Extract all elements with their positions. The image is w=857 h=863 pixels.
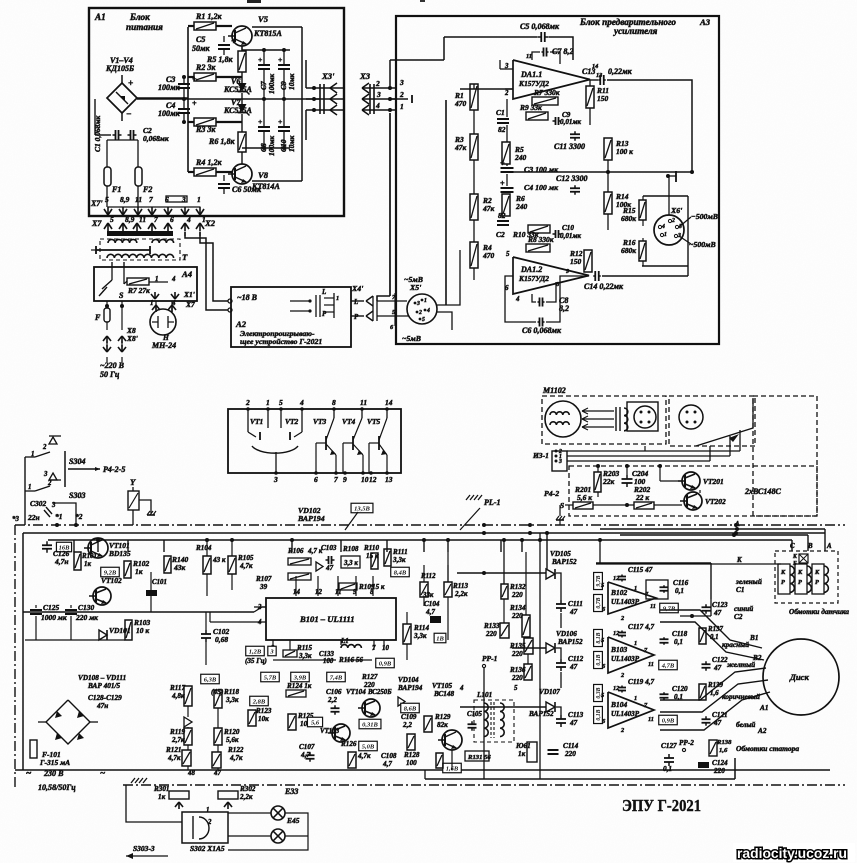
svg-text:R7 27к: R7 27к — [127, 286, 150, 295]
svg-text:22н: 22н — [27, 513, 40, 522]
svg-text:+: + — [258, 55, 262, 64]
svg-text:С122: С122 — [712, 656, 728, 664]
svg-text:R120: R120 — [223, 728, 240, 736]
svg-text:1: 1 — [424, 298, 427, 304]
svg-text:3,3к: 3,3к — [225, 696, 239, 704]
svg-text:С14 0,22мк: С14 0,22мк — [584, 282, 624, 291]
svg-text:S: S — [119, 291, 124, 300]
svg-text:~: ~ — [26, 768, 32, 778]
svg-text:9,7В: 9,7В — [663, 605, 676, 612]
svg-text:0,22мк: 0,22мк — [608, 67, 633, 76]
svg-text:5,6: 5,6 — [311, 719, 320, 726]
svg-text:1: 1 — [634, 695, 637, 702]
svg-text:+: + — [192, 75, 197, 84]
svg-text:А3: А3 — [699, 17, 711, 27]
svg-text:10,58/50Гц: 10,58/50Гц — [38, 783, 76, 792]
svg-text:4,7В: 4,7В — [661, 662, 675, 669]
svg-text:Х4': Х4' — [351, 284, 364, 293]
svg-text:0,1: 0,1 — [675, 587, 684, 595]
svg-text:−500мВ: −500мВ — [691, 212, 718, 221]
svg-text:220: 220 — [511, 650, 523, 658]
svg-text:1к: 1к — [84, 561, 91, 568]
svg-text:VT4: VT4 — [342, 417, 356, 426]
svg-text:47к: 47к — [454, 143, 466, 152]
svg-text:С13: С13 — [582, 67, 595, 76]
svg-text:220: 220 — [564, 750, 576, 758]
svg-text:R107: R107 — [255, 575, 272, 583]
svg-text:47: 47 — [569, 719, 578, 727]
svg-text:9: 9 — [343, 475, 347, 484]
svg-text:14: 14 — [385, 398, 393, 407]
svg-text:UL1403Р: UL1403Р — [611, 655, 640, 663]
svg-text:0,31В: 0,31В — [362, 721, 378, 728]
svg-text:8: 8 — [332, 398, 336, 407]
svg-text:В: В — [807, 543, 813, 550]
svg-text:2: 2 — [245, 398, 250, 407]
svg-text:12: 12 — [369, 475, 377, 484]
svg-text:2,2: 2,2 — [327, 696, 337, 704]
svg-text:R3 3к: R3 3к — [195, 125, 216, 134]
svg-text:Р: Р — [798, 579, 802, 586]
svg-text:1к: 1к — [135, 567, 143, 576]
svg-text:4,7к: 4,7к — [229, 754, 243, 762]
svg-text:10мк: 10мк — [287, 135, 296, 152]
svg-text:10к: 10к — [258, 715, 269, 723]
svg-text:С130: С130 — [78, 603, 94, 612]
svg-text:Х7: Х7 — [91, 219, 102, 228]
svg-text:С120: С120 — [672, 685, 688, 693]
svg-text:R6 1,8к: R6 1,8к — [208, 137, 235, 146]
svg-text:100мк: 100мк — [158, 83, 181, 92]
svg-text:5: 5 — [105, 195, 109, 204]
svg-text:С128-С129: С128-С129 — [88, 694, 122, 702]
svg-text:1: 1 — [150, 300, 153, 307]
svg-text:100 к: 100 к — [616, 147, 633, 156]
svg-text:VТ102: VТ102 — [101, 576, 122, 585]
svg-text:3,3 к: 3,3 к — [343, 560, 358, 567]
svg-text:R135: R135 — [509, 642, 526, 650]
svg-text:щее устройство Г-2021: щее устройство Г-2021 — [240, 337, 322, 346]
svg-text:220 мк: 220 мк — [75, 613, 98, 622]
svg-text:4,7к: 4,7к — [357, 752, 371, 760]
svg-text:5,6 к: 5,6 к — [577, 493, 592, 502]
svg-text:R121: R121 — [165, 746, 181, 754]
svg-text:К: К — [736, 557, 742, 564]
svg-text:А: А — [734, 521, 740, 528]
svg-text:2,2к: 2,2к — [454, 590, 468, 598]
svg-text:VD104: VD104 — [398, 676, 419, 684]
svg-text:4,7к: 4,7к — [167, 754, 181, 762]
svg-text:R127: R127 — [361, 673, 378, 681]
svg-text:4,7: 4,7 — [425, 608, 435, 616]
svg-text:4,7н: 4,7н — [54, 557, 68, 566]
svg-text:2,7к: 2,7к — [171, 736, 185, 744]
svg-text:11: 11 — [650, 603, 656, 610]
svg-text:0,1: 0,1 — [674, 638, 683, 646]
svg-text:R104: R104 — [195, 544, 212, 552]
svg-text:VT1: VT1 — [250, 417, 263, 426]
svg-text:240: 240 — [514, 153, 526, 162]
svg-text:С6 0,068мк: С6 0,068мк — [522, 326, 562, 335]
svg-text:~5мВ: ~5мВ — [402, 334, 421, 343]
svg-text:82к: 82к — [437, 721, 448, 729]
svg-text:8,6В: 8,6В — [404, 705, 417, 712]
svg-text:В1: В1 — [749, 634, 758, 642]
svg-text:5,0В: 5,0В — [362, 743, 375, 750]
svg-text:43 к: 43 к — [212, 556, 226, 564]
svg-text:Р: Р — [815, 579, 819, 586]
svg-text:РР-2: РР-2 — [679, 739, 694, 747]
svg-text:~220 В: ~220 В — [100, 361, 125, 370]
svg-text:R126: R126 — [340, 740, 357, 748]
svg-text:R134: R134 — [509, 604, 526, 612]
svg-text:КС515А: КС515А — [223, 106, 253, 115]
svg-text:С113: С113 — [568, 711, 584, 719]
svg-text:3: 3 — [376, 90, 381, 99]
svg-text:8,9: 8,9 — [120, 195, 130, 204]
svg-text:Х5': Х5' — [409, 283, 422, 292]
svg-text:R119: R119 — [169, 728, 185, 736]
svg-text:R2 3к: R2 3к — [195, 63, 216, 72]
svg-text:С118: С118 — [672, 630, 688, 638]
svg-text:R302: R302 — [239, 785, 256, 793]
svg-text:82: 82 — [498, 211, 506, 220]
svg-text:РР-1: РР-1 — [482, 654, 497, 663]
svg-text:К: К — [814, 569, 820, 576]
svg-text:Х1': Х1' — [183, 290, 195, 299]
svg-text:(45): (45) — [211, 687, 224, 696]
svg-text:R124 1к: R124 1к — [286, 682, 312, 690]
svg-text:С101: С101 — [152, 579, 167, 586]
svg-text:DA1.1: DA1.1 — [520, 70, 542, 79]
svg-text:4: 4 — [459, 685, 464, 692]
svg-text:5,6к: 5,6к — [226, 736, 239, 744]
svg-text:М1102: М1102 — [542, 386, 566, 395]
svg-text:R112: R112 — [420, 573, 436, 580]
svg-text:6,3В: 6,3В — [204, 676, 217, 683]
svg-text:С124: С124 — [712, 759, 728, 767]
svg-text:47н: 47н — [96, 702, 108, 710]
svg-text:7: 7 — [149, 195, 153, 204]
svg-text:3: 3 — [558, 459, 562, 465]
svg-text:С6 50мк: С6 50мк — [232, 185, 262, 194]
svg-text:А: А — [826, 543, 832, 550]
svg-text:А4: А4 — [181, 269, 193, 279]
svg-text:В103: В103 — [610, 645, 627, 654]
svg-text:S304: S304 — [69, 457, 86, 466]
svg-text:R138: R138 — [716, 739, 732, 746]
svg-text:F2: F2 — [142, 185, 152, 194]
svg-text:VТ105: VТ105 — [432, 682, 452, 690]
svg-text:220: 220 — [511, 612, 523, 620]
svg-text:С104: С104 — [424, 600, 440, 608]
svg-text:100: 100 — [323, 658, 334, 665]
svg-text:Р: Р — [781, 579, 785, 586]
svg-text:12: 12 — [315, 589, 322, 596]
svg-text:R129: R129 — [434, 713, 451, 721]
svg-text:Блок: Блок — [129, 12, 150, 22]
svg-text:100мк: 100мк — [158, 109, 181, 118]
svg-text:*3: *3 — [12, 516, 19, 523]
svg-text:1: 1 — [664, 232, 667, 238]
svg-text:PL-1: PL-1 — [484, 498, 501, 507]
svg-text:(35 Гц): (35 Гц) — [245, 657, 267, 665]
svg-text:150: 150 — [597, 94, 608, 103]
svg-text:L: L — [353, 299, 358, 306]
svg-text:V5: V5 — [258, 14, 269, 24]
svg-text:Е33: Е33 — [284, 787, 298, 796]
svg-text:1: 1 — [206, 807, 209, 814]
svg-text:150: 150 — [570, 257, 581, 266]
svg-text:ВАР194: ВАР194 — [397, 684, 423, 692]
svg-text:С108: С108 — [381, 752, 397, 760]
svg-text:Обмотки датчика: Обмотки датчика — [789, 608, 849, 616]
svg-text:47к: 47к — [482, 204, 494, 213]
svg-text:R123: R123 — [255, 707, 272, 715]
svg-text:1,2В: 1,2В — [249, 648, 262, 655]
svg-text:R108: R108 — [342, 545, 359, 553]
svg-text:11: 11 — [360, 398, 367, 407]
svg-text:13: 13 — [596, 72, 602, 79]
svg-text:В101 – UL1111: В101 – UL1111 — [299, 614, 355, 624]
svg-text:К: К — [797, 569, 803, 576]
svg-text:зеленый: зеленый — [735, 577, 762, 586]
svg-text:красный: красный — [722, 640, 749, 649]
svg-text:1к: 1к — [158, 793, 166, 801]
svg-text:22к: 22к — [602, 477, 614, 486]
svg-text:R301: R301 — [153, 785, 169, 793]
svg-text:С11 3300: С11 3300 — [554, 142, 585, 151]
svg-text:2: 2 — [418, 310, 422, 316]
svg-text:39: 39 — [259, 583, 268, 591]
svg-text:1: 1 — [634, 640, 637, 647]
svg-text:+: + — [231, 37, 236, 46]
svg-text:5: 5 — [110, 215, 114, 224]
svg-text:3,9В: 3,9В — [293, 674, 307, 681]
svg-text:10: 10 — [382, 645, 389, 652]
svg-text:5: 5 — [601, 692, 604, 699]
svg-text:240: 240 — [515, 202, 527, 211]
svg-text:С: С — [790, 543, 795, 550]
svg-text:С125: С125 — [43, 603, 59, 612]
svg-text:4: 4 — [375, 101, 380, 110]
svg-text:3,3к: 3,3к — [298, 652, 312, 660]
svg-text:VD108 – VD111: VD108 – VD111 — [78, 674, 126, 682]
svg-text:С111: С111 — [568, 600, 583, 608]
svg-text:47: 47 — [713, 664, 722, 672]
svg-text:11: 11 — [526, 53, 532, 60]
svg-text:0,9В: 0,9В — [662, 717, 675, 724]
svg-text:С2: С2 — [496, 230, 505, 239]
svg-text:К157УД2: К157УД2 — [518, 79, 549, 88]
svg-text:А1: А1 — [759, 704, 768, 712]
svg-text:1к: 1к — [518, 750, 526, 758]
svg-text:4: 4 — [186, 215, 191, 224]
svg-text:С2: С2 — [734, 613, 743, 621]
svg-text:синий: синий — [734, 604, 753, 613]
svg-text:4,8к: 4,8к — [171, 692, 185, 700]
svg-text:11: 11 — [135, 195, 142, 204]
svg-text:Х3': Х3' — [321, 71, 335, 81]
svg-text:+: + — [258, 117, 262, 126]
svg-text:0,01мк: 0,01мк — [560, 232, 581, 240]
svg-text:~500мВ: ~500мВ — [689, 240, 716, 249]
svg-text:4: 4 — [426, 308, 430, 314]
svg-text:1: 1 — [400, 102, 404, 111]
svg-text:С119 4,7: С119 4,7 — [628, 678, 655, 686]
svg-text:470: 470 — [454, 99, 466, 108]
svg-text:13,5В: 13,5В — [354, 505, 370, 512]
svg-text:2: 2 — [671, 218, 675, 224]
svg-text:UL1403Р: UL1403Р — [611, 710, 640, 718]
svg-text:R118: R118 — [223, 688, 239, 696]
svg-text:R106: R106 — [287, 547, 304, 555]
svg-text:22 к: 22 к — [635, 493, 649, 502]
svg-text:Т: Т — [182, 252, 188, 262]
svg-text:Y: Y — [130, 477, 136, 487]
svg-text:R122: R122 — [227, 746, 244, 754]
svg-text:0,01мк: 0,01мк — [560, 118, 581, 126]
svg-text:680к: 680к — [621, 246, 636, 255]
svg-text:14: 14 — [293, 589, 300, 596]
svg-text:VD105: VD105 — [550, 550, 571, 558]
svg-text:L: L — [321, 289, 326, 296]
svg-text:В104: В104 — [610, 700, 627, 709]
svg-text:ВС148: ВС148 — [433, 690, 455, 698]
svg-text:R5 1,8к: R5 1,8к — [206, 55, 233, 64]
svg-text:С12 3300: С12 3300 — [556, 174, 588, 183]
svg-text:2,2к: 2,2к — [239, 793, 253, 801]
svg-text:43к: 43к — [173, 563, 185, 572]
svg-text:R114: R114 — [413, 624, 429, 632]
svg-text:Обмотки статора: Обмотки статора — [736, 744, 799, 753]
svg-text:10мк: 10мк — [287, 73, 296, 90]
svg-text:С133: С133 — [319, 651, 334, 658]
svg-text:1000 мк: 1000 мк — [41, 613, 67, 622]
svg-text:R131 56: R131 56 — [467, 754, 491, 761]
svg-text:~18 В: ~18 В — [237, 293, 258, 302]
svg-text:Г-315 мА: Г-315 мА — [39, 758, 70, 767]
svg-text:VТ201: VТ201 — [703, 477, 724, 486]
svg-text:5: 5 — [506, 251, 510, 258]
svg-text:47: 47 — [569, 608, 578, 616]
svg-text:8,9: 8,9 — [125, 215, 135, 224]
svg-text:470: 470 — [482, 251, 494, 260]
svg-text:Х3: Х3 — [359, 71, 371, 81]
svg-text:К: К — [780, 569, 786, 576]
svg-text:V8: V8 — [258, 170, 269, 180]
svg-text:А2: А2 — [757, 727, 767, 735]
svg-text:5: 5 — [601, 582, 604, 589]
svg-text:4: 4 — [171, 276, 176, 283]
svg-text:4,7: 4,7 — [382, 760, 392, 768]
svg-text:питания: питания — [126, 22, 163, 32]
svg-text:3: 3 — [43, 471, 48, 478]
svg-text:усилителя: усилителя — [613, 26, 658, 36]
svg-text:7,4В: 7,4В — [330, 674, 343, 681]
svg-text:R132: R132 — [509, 583, 526, 591]
svg-text:*1: *1 — [55, 512, 62, 521]
svg-text:5,7В: 5,7В — [264, 674, 277, 681]
svg-text:R105: R105 — [237, 554, 254, 562]
svg-text:Диск: Диск — [789, 672, 809, 682]
svg-text:R9 33к: R9 33к — [519, 103, 542, 112]
svg-text:2: 2 — [207, 819, 212, 826]
svg-text:R8 330к: R8 330к — [527, 235, 554, 244]
svg-text:Е45: Е45 — [286, 816, 300, 825]
svg-text:R136: R136 — [509, 666, 526, 674]
svg-text:0,68: 0,68 — [215, 635, 228, 644]
svg-text:VT2: VT2 — [285, 417, 299, 426]
svg-text:Х2: Х2 — [204, 218, 216, 228]
svg-text:7: 7 — [154, 215, 158, 224]
svg-text:220: 220 — [511, 591, 523, 599]
svg-text:R101: R101 — [81, 553, 97, 560]
svg-text:С115 47: С115 47 — [628, 566, 653, 574]
svg-text:220: 220 — [511, 674, 523, 682]
svg-text:ВАР194: ВАР194 — [297, 514, 325, 523]
svg-text:4,7к: 4,7к — [239, 562, 253, 570]
svg-text:4: 4 — [299, 398, 304, 407]
svg-text:47: 47 — [713, 609, 722, 617]
svg-text:R128: R128 — [403, 751, 420, 759]
svg-text:+: + — [278, 117, 282, 126]
svg-text:коричневый: коричневый — [722, 692, 760, 701]
svg-text:3: 3 — [416, 301, 420, 307]
svg-text:L1: L1 — [340, 638, 349, 645]
svg-text:белый: белый — [736, 720, 755, 729]
svg-text:1: 1 — [634, 585, 637, 592]
svg-text:Х6': Х6' — [670, 206, 683, 215]
svg-text:220: 220 — [713, 767, 725, 775]
svg-text:R111: R111 — [392, 548, 408, 556]
svg-text:С106: С106 — [326, 688, 342, 696]
svg-text:С302: С302 — [30, 499, 46, 508]
svg-text:10 к: 10 к — [136, 626, 149, 635]
svg-text:С117 4,7: С117 4,7 — [628, 623, 655, 631]
svg-text:2: 2 — [399, 90, 404, 99]
svg-text:А2: А2 — [235, 319, 247, 329]
svg-text:11: 11 — [648, 716, 654, 723]
svg-text:47: 47 — [325, 564, 334, 572]
svg-text:+: + — [192, 99, 197, 108]
svg-text:50мк: 50мк — [192, 44, 211, 53]
svg-text:С114: С114 — [563, 742, 579, 750]
svg-text:С1: С1 — [736, 586, 744, 594]
svg-text:10: 10 — [361, 475, 369, 484]
svg-text:2: 2 — [42, 444, 47, 451]
svg-text:С105: С105 — [467, 711, 482, 718]
svg-text:100мк: 100мк — [267, 136, 276, 156]
svg-text:5: 5 — [422, 317, 425, 323]
svg-text:2: 2 — [375, 79, 380, 88]
svg-text:В2: В2 — [752, 654, 762, 662]
svg-text:3: 3 — [273, 475, 278, 484]
svg-text:13: 13 — [385, 475, 393, 484]
svg-text:S303-3: S303-3 — [133, 844, 155, 853]
svg-text:220: 220 — [485, 630, 497, 638]
svg-text:С5: С5 — [196, 35, 205, 44]
svg-text:*2: *2 — [75, 512, 83, 521]
svg-text:11: 11 — [648, 661, 654, 668]
svg-text:КД105Б: КД105Б — [105, 64, 134, 73]
svg-text:ВАР 401/5: ВАР 401/5 — [87, 682, 120, 690]
svg-text:ВАР152: ВАР152 — [557, 638, 583, 646]
svg-text:100: 100 — [406, 759, 417, 767]
svg-text:5: 5 — [279, 398, 283, 407]
svg-text:С10: С10 — [562, 224, 574, 232]
svg-text:VD106: VD106 — [556, 630, 577, 638]
